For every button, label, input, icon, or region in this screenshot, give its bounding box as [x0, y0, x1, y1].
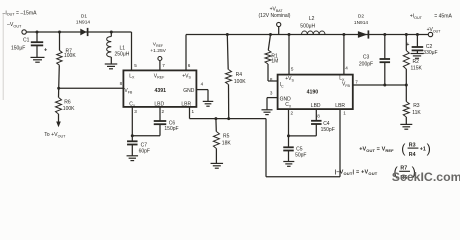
- svg-text:5: 5: [134, 63, 137, 68]
- svg-text:18K: 18K: [222, 140, 232, 146]
- svg-text:LX: LX: [129, 73, 135, 79]
- svg-text:LBR: LBR: [335, 103, 345, 109]
- svg-text:1: 1: [343, 111, 346, 116]
- svg-text:D2: D2: [358, 14, 364, 20]
- node -VOUT net wire: [26, 31, 131, 33]
- svg-text:7: 7: [355, 80, 358, 85]
- wire Lx pin4 IC2: [342, 33, 345, 36]
- VREF terminal node: [159, 61, 161, 71]
- wire LBR pin1 IC1 to bottom net: [189, 107, 191, 119]
- svg-text:+1.25V: +1.25V: [150, 48, 166, 54]
- svg-text:C1: C1: [23, 38, 30, 44]
- wire VFB pin7 IC2 net: [353, 84, 407, 86]
- svg-text:150pF: 150pF: [164, 126, 178, 132]
- svg-text:–VOUT: –VOUT: [7, 22, 22, 28]
- svg-text:LBR: LBR: [181, 102, 191, 108]
- svg-text:= 45mA: = 45mA: [434, 14, 452, 20]
- capacitor C4: [315, 109, 317, 120]
- svg-text:5: 5: [291, 66, 294, 71]
- ground GND pin3 IC2: [267, 97, 278, 99]
- diode D2 1N914: [358, 31, 368, 38]
- svg-text:8: 8: [270, 77, 273, 82]
- wire +Vs pin6 to rail: [185, 35, 187, 71]
- svg-text:2: 2: [162, 109, 165, 114]
- svg-text:8: 8: [317, 113, 320, 118]
- svg-text:1: 1: [192, 109, 195, 114]
- svg-text:8: 8: [120, 81, 123, 86]
- svg-text:500μH: 500μH: [300, 24, 315, 30]
- svg-text:+IOUT: +IOUT: [410, 14, 423, 20]
- terminal +VBAT: [278, 27, 280, 35]
- op-amp U1 4391 converter IC: [123, 70, 196, 107]
- formula 1: +VOUT = VREF (R3/R4 + 1): [359, 142, 431, 158]
- svg-text:): ): [427, 142, 431, 156]
- wire +V rail: [186, 34, 428, 36]
- svg-text:GND: GND: [183, 88, 195, 94]
- svg-text:VREF: VREF: [154, 73, 165, 79]
- svg-text:R4: R4: [236, 72, 243, 78]
- ground below R3: [400, 124, 412, 129]
- svg-text:+VS: +VS: [182, 73, 191, 79]
- svg-text:2: 2: [291, 110, 294, 115]
- resistor R6: [56, 97, 62, 114]
- svg-text:IC: IC: [280, 82, 284, 88]
- capacitor C7: [131, 136, 133, 141]
- terminal +VOUT: [428, 32, 432, 36]
- svg-text:150μF: 150μF: [11, 46, 25, 52]
- svg-text:4391: 4391: [155, 88, 167, 94]
- svg-text:+VS: +VS: [285, 76, 294, 82]
- svg-text:100K: 100K: [234, 79, 246, 85]
- svg-text:+: +: [44, 48, 48, 54]
- svg-text:L2: L2: [309, 16, 315, 22]
- svg-text:60pF: 60pF: [139, 149, 150, 155]
- svg-text:250μH: 250μH: [115, 52, 130, 58]
- ground below C5: [283, 162, 294, 167]
- svg-text:SeekIC.com: SeekIC.com: [392, 170, 460, 184]
- svg-text:(: (: [401, 142, 406, 156]
- ground GND pin4 IC1: [196, 89, 208, 91]
- wire Cx pin3 IC1: [131, 107, 133, 136]
- wire VFB net IC1: [59, 87, 124, 89]
- wire bottom loop: [265, 119, 267, 177]
- svg-text:3: 3: [270, 91, 273, 96]
- svg-text:C3: C3: [363, 55, 370, 61]
- wire Cx pin2 IC2: [288, 109, 290, 136]
- svg-text:4: 4: [201, 81, 204, 86]
- svg-text:R2: R2: [413, 59, 420, 65]
- resistor R5: [214, 117, 217, 120]
- svg-text:CX: CX: [285, 102, 292, 108]
- svg-text:1M: 1M: [271, 58, 278, 64]
- svg-text:+VBAT: +VBAT: [270, 7, 284, 13]
- svg-text:C2: C2: [426, 44, 433, 50]
- svg-text:100K: 100K: [64, 53, 76, 59]
- ground below C2: [411, 54, 424, 59]
- svg-text:4190: 4190: [307, 89, 319, 95]
- capacitor C2: [416, 33, 419, 36]
- svg-text:To +VOUT: To +VOUT: [44, 132, 66, 138]
- ground below C1: [31, 57, 45, 62]
- diode D1 1N914: [80, 29, 86, 36]
- inductor L2: [302, 31, 326, 34]
- svg-text:+VOUT: +VOUT: [427, 27, 442, 33]
- svg-text:|–VOUT| = +VOUT: |–VOUT| = +VOUT: [335, 170, 378, 176]
- svg-text:L1: L1: [120, 45, 126, 51]
- svg-text:VFB: VFB: [124, 88, 133, 94]
- svg-text:100K: 100K: [63, 106, 75, 112]
- svg-text:4: 4: [345, 66, 348, 71]
- svg-text:R3: R3: [413, 103, 420, 109]
- svg-text:VFB: VFB: [342, 82, 351, 88]
- svg-text:VREF: VREF: [153, 42, 163, 48]
- resistor R2: [405, 33, 408, 36]
- svg-text:1N914: 1N914: [76, 20, 90, 26]
- svg-text:+VOUT = VREF: +VOUT = VREF: [359, 146, 394, 152]
- ground below C7: [127, 156, 139, 161]
- svg-text:LBD: LBD: [311, 103, 321, 109]
- svg-text:R3: R3: [409, 142, 416, 148]
- svg-text:3: 3: [134, 109, 137, 114]
- svg-text:1N914: 1N914: [354, 20, 368, 26]
- svg-text:–IOUT = –15mA: –IOUT = –15mA: [3, 10, 38, 16]
- wire Lx pin5 drop: [131, 32, 133, 70]
- capacitor C6: [159, 107, 161, 121]
- svg-text:6: 6: [188, 63, 191, 68]
- svg-text:330μF: 330μF: [423, 50, 437, 56]
- svg-text:+1: +1: [420, 146, 426, 152]
- inductor L1: [110, 31, 113, 34]
- resistor R4: [226, 33, 229, 36]
- capacitor C1: [36, 31, 39, 34]
- capacitor C3: [383, 33, 386, 36]
- svg-text:C7: C7: [141, 142, 148, 148]
- ground below L1: [105, 64, 118, 69]
- svg-text:R6: R6: [64, 100, 71, 106]
- svg-text:R4: R4: [409, 152, 416, 158]
- svg-text:(12V Nominal): (12V Nominal): [259, 13, 291, 19]
- svg-text:200pF: 200pF: [359, 62, 373, 68]
- ground below R5: [211, 163, 224, 168]
- svg-text:7: 7: [162, 63, 165, 68]
- svg-text:115K: 115K: [411, 66, 423, 72]
- capacitor C5: [288, 136, 290, 147]
- svg-text:150pF: 150pF: [321, 127, 335, 133]
- resistor R1: [269, 33, 272, 36]
- svg-text:50pF: 50pF: [295, 152, 306, 158]
- svg-text:LBD: LBD: [154, 102, 164, 108]
- svg-text:11K: 11K: [412, 110, 421, 116]
- svg-text:R5: R5: [223, 134, 230, 140]
- svg-text:+: +: [406, 42, 409, 48]
- formula 2: |-VOUT| = +VOUT (R7/R6): [335, 165, 416, 181]
- wire +Vs pin5 IC2: [288, 33, 291, 36]
- terminal -VOUT: [22, 30, 26, 34]
- resistor R3: [405, 85, 407, 102]
- op-amp U2 4190 converter IC: [278, 75, 353, 110]
- svg-text:D1: D1: [81, 14, 87, 20]
- resistor R7: [58, 31, 61, 34]
